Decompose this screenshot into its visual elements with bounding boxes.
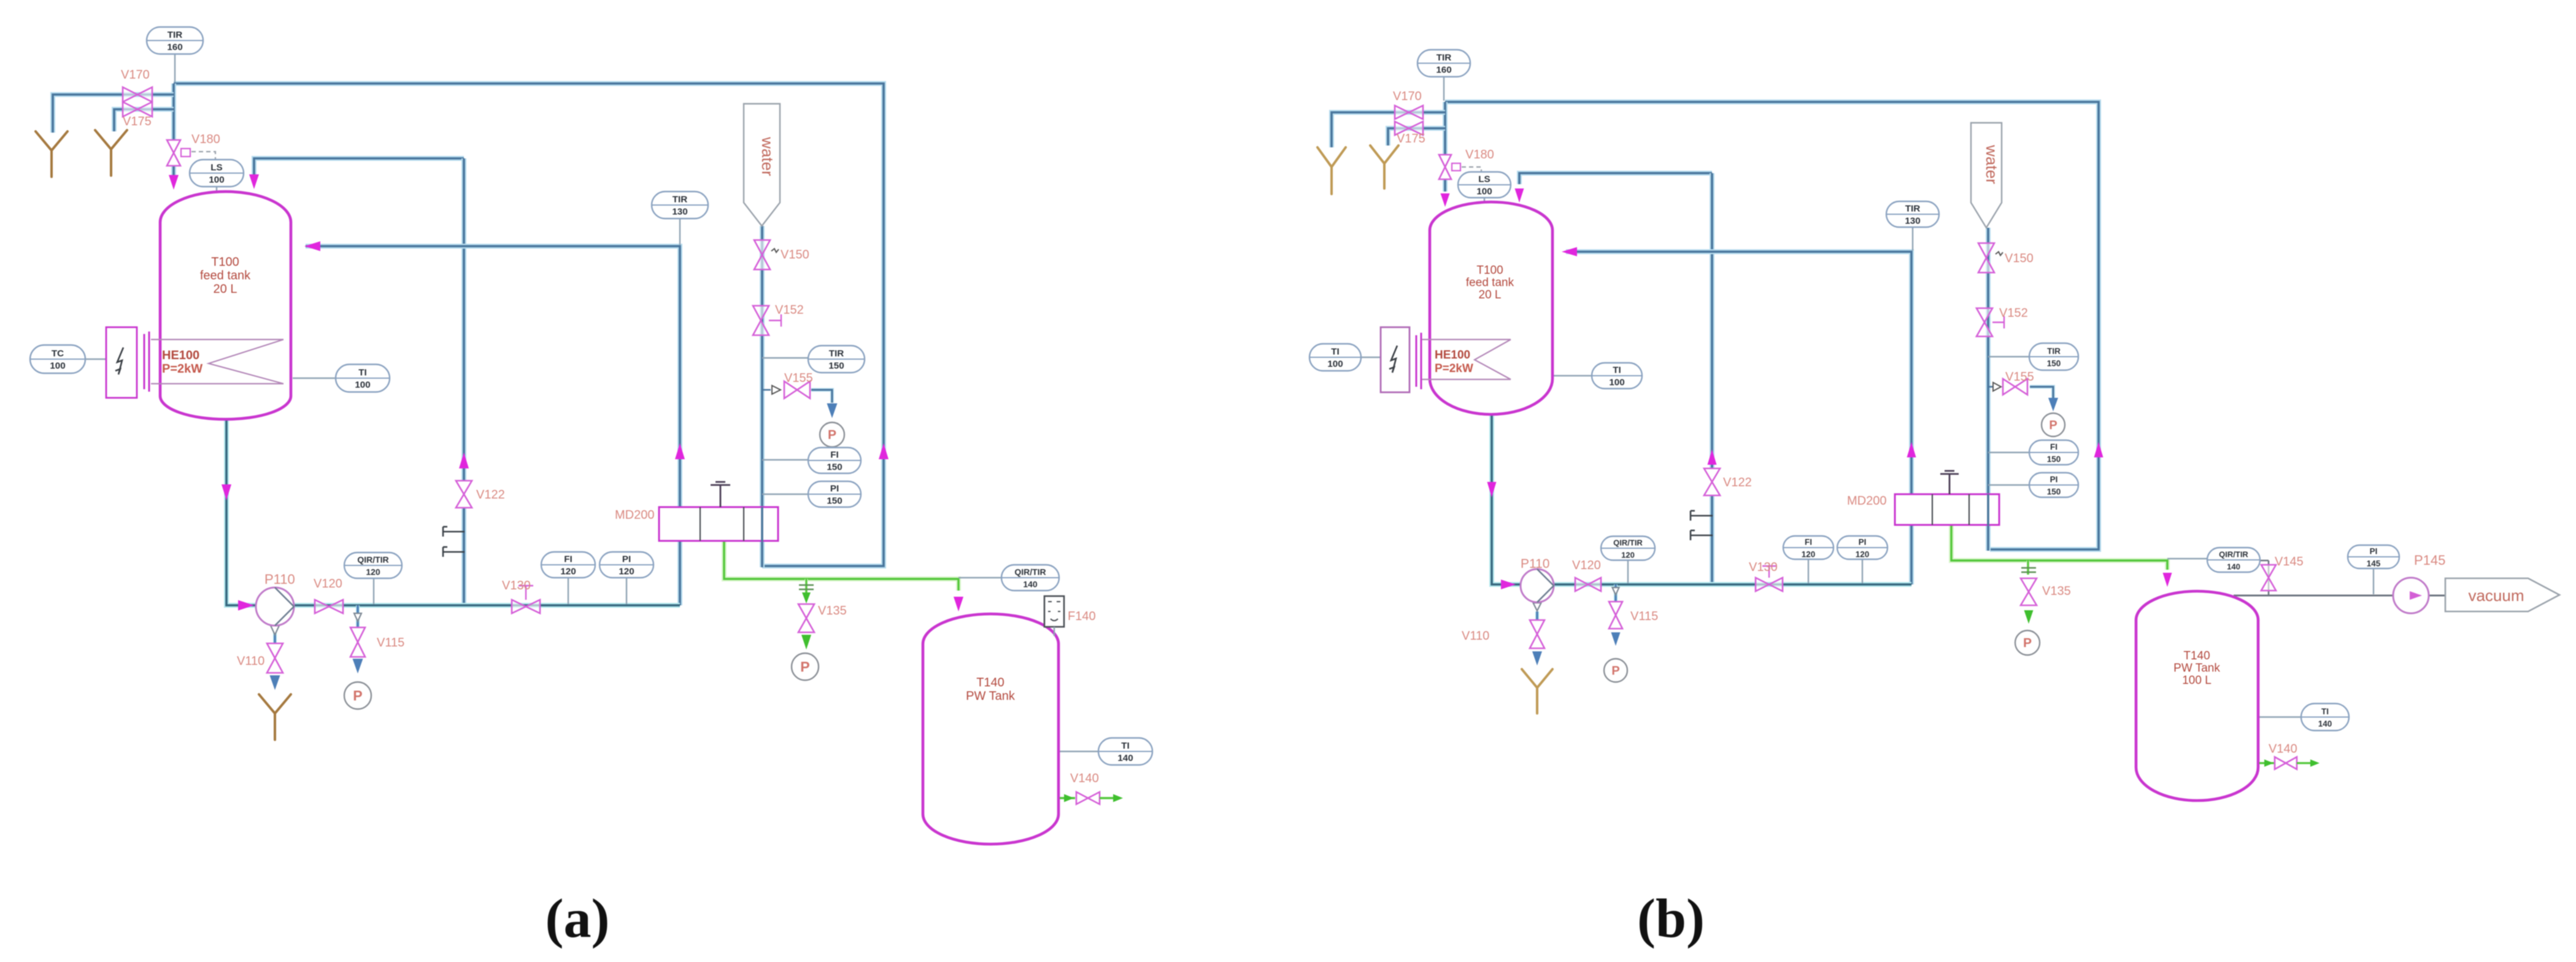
flow arrow out of V110 (panel a) [270, 675, 280, 690]
flow arrow out of V115 (panel b) [1611, 632, 1621, 646]
flow arrow out of V135 (panel a) [801, 635, 811, 650]
wire: panel-a recirculation riser below valve V122 [461, 508, 466, 607]
svg-text:TI: TI [1121, 741, 1130, 751]
vessel T100 feed tank (panel b) [1430, 202, 1552, 414]
instrument TI100 (panel a) [336, 365, 390, 392]
heater HE100 isolation bars (panel a) [144, 332, 149, 392]
svg-text:V180: V180 [191, 133, 220, 146]
svg-text:P: P [800, 659, 809, 675]
svg-text:140: 140 [2318, 720, 2332, 729]
valve V120 (panel b) [1575, 578, 1601, 591]
pump P145 vacuum pump (panel b) [2393, 578, 2429, 613]
svg-text:TIR: TIR [829, 349, 844, 359]
wire: panel-a V155 sample branch [762, 389, 771, 390]
flow arrow into T100 top right (panel b) [1515, 188, 1524, 203]
svg-text:PW Tank: PW Tank [2173, 662, 2220, 675]
instrument PI145 (panel b) [2348, 545, 2399, 568]
wire: TI140-a stem [1058, 751, 1099, 752]
valve V152 (panel a) [753, 306, 769, 335]
svg-text:FI: FI [564, 554, 573, 565]
pump nozzle below P110 (panel b) [1533, 603, 1541, 611]
instrument TC100 (panel b) [1309, 344, 1361, 371]
valve V175 (panel a) [123, 102, 152, 117]
valve V170 (panel a) [123, 87, 152, 102]
wire: FI150-b stem [1988, 452, 2031, 453]
flow arrow out of V110 (panel b) [1532, 651, 1542, 665]
heater HE100 box (panel a) [106, 327, 137, 398]
svg-text:TIR: TIR [673, 195, 687, 205]
flow arrow out of V135 (panel b) [2024, 610, 2034, 624]
sample cap upper near V122 (panel b) [1691, 511, 1713, 521]
svg-text:QIR/TIR: QIR/TIR [1613, 538, 1643, 548]
svg-text:feed tank: feed tank [1466, 276, 1514, 289]
wire: panel-a distillate return line into T100 right side [306, 246, 680, 605]
svg-text:V175: V175 [1397, 132, 1425, 145]
vent Y left of V170 (panel a) [36, 131, 67, 177]
instrument TIR160 (panel a) [147, 27, 203, 54]
wire: water line through MD200 right cell (panel b) [1988, 494, 1989, 526]
filter F140 (panel a) [1044, 596, 1064, 636]
svg-text:QIR/TIR: QIR/TIR [1014, 567, 1046, 577]
svg-text:PI: PI [622, 554, 631, 565]
inlet: water funnel (panel a) [744, 104, 780, 226]
pressure point P below V135 (panel b) [2015, 630, 2040, 655]
flow arrow into T100 top left (panel a) [169, 175, 179, 190]
svg-text:P: P [353, 688, 362, 704]
instrument TIR150 (panel a) [808, 346, 865, 373]
wire: panel-b V115 drain branch [1614, 584, 1618, 602]
svg-text:LS: LS [1478, 174, 1490, 185]
svg-text:QIR/TIR: QIR/TIR [357, 555, 388, 565]
wire: V180-b control dashed link [1462, 167, 1481, 173]
wire: panel-b segment from V180 to T100 inlet [1443, 179, 1448, 192]
instrument FI150 (panel b) [2029, 440, 2078, 465]
wire: QIR/TIR120-b stem [1627, 560, 1629, 583]
valve V175 (panel b) [1395, 122, 1423, 135]
wire: panel-a V115 drain branch [356, 605, 360, 627]
valve V122 (panel a) [456, 481, 472, 508]
outlet: vacuum symbol (panel b) [2445, 578, 2559, 611]
flow arrow on permeate line into T140 (panel a) [954, 597, 963, 611]
instrument QIR/TIR140 (panel a) [1001, 565, 1059, 591]
svg-text:TIR: TIR [1436, 53, 1451, 63]
svg-text:V110: V110 [1462, 629, 1489, 643]
valve V152 (panel b) [1976, 308, 1992, 336]
svg-text:TI: TI [358, 368, 367, 378]
instrument PI120 (panel b) [1837, 536, 1888, 559]
wire: panel-a V135 drain stem [805, 579, 808, 593]
pressure point P below V155 (panel a) [820, 422, 844, 447]
pressure point P below V155 (panel b) [2042, 413, 2065, 436]
svg-text:150: 150 [2047, 359, 2061, 368]
wire: QIR/TIR140-a stem [958, 577, 1003, 578]
wire: TIR130-b stem [1912, 228, 1913, 250]
svg-text:P: P [828, 428, 836, 442]
svg-text:100: 100 [50, 361, 65, 371]
svg-text:V152: V152 [775, 303, 804, 317]
svg-text:100: 100 [1476, 187, 1492, 197]
flow arrow at V155 outlet (panel a) [827, 403, 838, 418]
flow arrow into pump P110 (panel b) [1501, 580, 1516, 589]
flow arrow on MD200 return riser (panel b) [2094, 442, 2104, 457]
svg-text:TIR: TIR [1905, 204, 1920, 214]
wire: panel-a top steam pipe from V170 junction to right riser and MD200 return [174, 83, 884, 566]
svg-text:130: 130 [1905, 216, 1920, 227]
instrument TIR160 (panel b) [1417, 50, 1470, 77]
svg-text:V145: V145 [2275, 555, 2304, 568]
heater HE100 box (panel b) [1381, 327, 1409, 392]
valve V130 (panel b) [1756, 578, 1783, 591]
vent Y left of V175 (panel b) [1370, 145, 1398, 188]
wire: panel-a suction line from T100 bottom to pump P110 and main header [226, 419, 680, 605]
svg-text:100: 100 [209, 175, 224, 185]
wire: panel-b water line segment below MD200 [1986, 525, 1991, 551]
wire: panel-b top steam pipe to right riser and MD200 return [1445, 102, 2099, 549]
svg-text:160: 160 [167, 42, 182, 53]
instrument TIR130 (panel b) [1886, 201, 1939, 227]
wire: panel-b junction vertical to V180 [1443, 102, 1448, 155]
svg-text:P: P [1611, 664, 1619, 678]
wire: panel-b V155 sample branch [1988, 386, 1994, 387]
wire: panel-a V155 outlet to pressure point [811, 390, 832, 403]
wire: PI150-a stem [762, 494, 809, 495]
valve V140 (panel a) [1060, 792, 1123, 804]
svg-text:P=2kW: P=2kW [162, 362, 202, 376]
svg-text:V180: V180 [1465, 148, 1494, 161]
instrument TI140 (panel a) [1098, 738, 1152, 765]
wire: panel-b V135 drain stem [2027, 561, 2030, 575]
wire: panel-b V110 drain branch [1535, 611, 1539, 620]
svg-text:LS: LS [210, 163, 222, 173]
wire: TIR160-a stem [174, 54, 175, 82]
vent Y left of V170 (panel b) [1317, 147, 1346, 194]
svg-text:P=2kW: P=2kW [1435, 362, 1473, 375]
pressure point P below V135 (panel a) [792, 653, 819, 680]
flow arrow on recirculation riser (panel b) [1708, 449, 1717, 465]
svg-text:V155: V155 [2005, 370, 2034, 384]
svg-text:V140: V140 [2269, 742, 2297, 756]
svg-text:P145: P145 [2414, 553, 2445, 568]
instrument PI150 (panel a) [808, 481, 861, 507]
instrument TIR130 (panel a) [652, 192, 708, 219]
valve V155 (panel a) [784, 381, 810, 398]
valve V140 (panel b) [2259, 757, 2320, 769]
svg-text:water: water [758, 136, 777, 176]
valve V155 (panel b) [2003, 379, 2027, 395]
svg-text:20 L: 20 L [1479, 289, 1502, 301]
wire: TC100-a stem [85, 359, 106, 360]
wire: panel-a junction vertical from top pipe to valve V180 [171, 83, 176, 140]
wire: panel-b permeate line from MD200 to T140 [1951, 525, 2167, 570]
flow arrow into T100 right side (panel a) [304, 241, 320, 251]
flow arrow on T100 drop line (panel a) [222, 484, 231, 500]
instrument FI120 (panel b) [1783, 536, 1834, 559]
valve V110 (panel b) [1530, 620, 1544, 648]
svg-text:PI: PI [2370, 547, 2378, 556]
svg-text:V140: V140 [1070, 772, 1099, 785]
wire: PI120-a stem [626, 577, 627, 604]
wire: TI100-a stem [293, 378, 336, 379]
svg-text:100: 100 [355, 380, 370, 390]
svg-text:MD200: MD200 [1847, 494, 1886, 508]
wire: PI120-b stem [1862, 559, 1863, 583]
instrument FI150 (panel a) [808, 448, 861, 473]
svg-text:T140: T140 [976, 676, 1005, 689]
vessel T140 PW tank (panel b) [2136, 591, 2258, 801]
heater HE100 lightning bolt (panel a) [115, 347, 123, 374]
svg-text:F140: F140 [1068, 610, 1096, 623]
flow arrow on permeate line into T140 (panel b) [2163, 573, 2172, 587]
svg-text:140: 140 [1023, 580, 1038, 589]
wire: FI150-a stem [762, 459, 809, 460]
wire: panel-a V110 drain branch [273, 626, 277, 643]
svg-text:140: 140 [2227, 562, 2240, 572]
svg-text:V120: V120 [314, 577, 342, 591]
wire: TIR150-a stem [762, 357, 809, 359]
svg-text:150: 150 [827, 496, 842, 506]
svg-text:(b): (b) [1637, 888, 1705, 949]
nozzle above V115 (panel b) [1613, 588, 1619, 595]
wire: panel-a water feed drop line through V150/V152 to MD200 [760, 226, 765, 507]
wire: QIR/TIR120-a stem [373, 571, 374, 604]
wire: panel-a recirculation riser above valve V122 [461, 158, 466, 480]
svg-text:120: 120 [1856, 550, 1870, 559]
instrument PI120 (panel a) [600, 552, 654, 578]
wire: panel-b V155 outlet to pressure point [2030, 387, 2053, 398]
svg-text:P: P [2023, 636, 2032, 650]
module MD200 (panel a) [659, 507, 778, 541]
svg-text:QIR/TIR: QIR/TIR [2219, 550, 2248, 559]
valve V145 (panel b) [2261, 565, 2276, 591]
wire: panel-a water line segment below MD200 [760, 541, 765, 567]
inlet: water funnel (panel b) [1971, 123, 2002, 228]
instrument QIR/TIR140 (panel b) [2207, 548, 2260, 572]
svg-text:V150: V150 [2005, 252, 2034, 265]
module MD200 stirrer handle (panel b) [1940, 471, 1959, 494]
svg-text:V150: V150 [781, 248, 809, 262]
wire: panel-a vent line through V170 to left vent [53, 95, 174, 133]
instrument QIR/TIR120 (panel a) [344, 553, 402, 578]
wire: panel-a segment from V180 to T100 inlet [171, 166, 176, 179]
wire: QIR/TIR140-b stem [2167, 558, 2209, 559]
valve V150 (panel a) [754, 240, 770, 270]
valve V180 (panel a) [167, 140, 180, 166]
svg-text:HE100: HE100 [162, 349, 199, 362]
wire: water line through MD200 right cell [762, 507, 763, 541]
sample cap lower near V122 (panel b) [1691, 530, 1713, 540]
vessel T100 feed tank (panel a) [160, 192, 291, 419]
svg-text:140: 140 [1117, 753, 1133, 764]
wire: PI150-b stem [1988, 484, 2031, 486]
svg-text:120: 120 [619, 567, 634, 577]
svg-text:PW Tank: PW Tank [966, 689, 1016, 703]
svg-text:V122: V122 [476, 488, 505, 502]
instrument FI120 (panel a) [541, 552, 595, 578]
valve V130 (panel a) [512, 600, 540, 613]
wire: panel-b V145 connection [2258, 560, 2269, 562]
sample cap lower near V122 (panel a) [443, 547, 465, 557]
wire: TI140-b stem [2259, 716, 2303, 718]
svg-text:P110: P110 [264, 572, 295, 587]
wire: panel-b recirculation riser above V122 [1710, 173, 1714, 468]
valve V135 (panel a) [798, 604, 814, 632]
module MD200 stirrer handle (panel a) [711, 482, 730, 507]
valve V150 (panel b) [1978, 243, 1994, 273]
svg-text:T100: T100 [1476, 264, 1503, 277]
flow arrow at V155 outlet (panel b) [2048, 398, 2058, 411]
svg-text:150: 150 [828, 361, 844, 371]
valve V115 (panel b) [1609, 602, 1622, 629]
flow arrow on T100 drop line (panel b) [1487, 482, 1497, 497]
svg-text:water: water [1983, 144, 2001, 184]
wire: FI120-b stem [1808, 559, 1809, 583]
wire: panel-a permeate line from MD200 to T140 [724, 541, 958, 591]
svg-text:FI: FI [1805, 538, 1812, 547]
wire: TC100-b stem [1361, 357, 1381, 358]
instrument LS100 (panel b) [1458, 172, 1511, 198]
svg-text:TI: TI [1613, 365, 1621, 376]
flow arrow on MD200 return riser (panel a) [879, 443, 889, 459]
flow arrow on distillate riser (panel a) [675, 443, 685, 459]
vent Y left of V175 (panel a) [95, 130, 127, 176]
svg-text:V170: V170 [1393, 90, 1422, 103]
vent Y below V110 (panel b) [1522, 669, 1552, 713]
svg-text:120: 120 [1621, 551, 1635, 560]
wire: LS100-a stem [216, 187, 217, 194]
wire: panel-b recirculation riser below V122 [1710, 496, 1714, 586]
wire: panel-a vent line through V175 to second vent [114, 109, 174, 131]
heater HE100 lightning bolt (panel b) [1389, 346, 1397, 373]
flow arrow into V135 (panel a) [802, 592, 811, 603]
wire: V180-a control dashed link [191, 152, 215, 161]
svg-text:145: 145 [2367, 559, 2381, 568]
svg-text:HE100: HE100 [1435, 349, 1470, 362]
svg-text:100: 100 [1609, 378, 1624, 388]
svg-text:vacuum: vacuum [2468, 586, 2524, 605]
svg-text:TIR: TIR [2047, 347, 2061, 356]
svg-text:V130: V130 [502, 579, 531, 592]
wire: panel-b vent line through V175 [1388, 128, 1445, 145]
svg-text:120: 120 [560, 567, 576, 577]
svg-text:20 L: 20 L [214, 282, 237, 296]
valve V110 (panel a) [267, 643, 283, 673]
flow arrow into pump P110 (panel a) [238, 600, 254, 611]
svg-text:P110: P110 [1521, 557, 1550, 571]
svg-text:TC: TC [52, 349, 64, 359]
svg-text:PI: PI [830, 484, 839, 494]
vent Y below V110 (panel a) [259, 694, 291, 740]
wire: panel-a recirculation return into T100 top [254, 158, 464, 181]
flow arrow on distillate riser (panel b) [1907, 442, 1916, 457]
svg-text:160: 160 [1436, 65, 1451, 76]
instrument PI150 (panel b) [2029, 473, 2078, 497]
svg-text:V120: V120 [1572, 559, 1601, 572]
flow arrow out of V115 (panel a) [353, 659, 363, 673]
svg-text:V135: V135 [818, 604, 847, 618]
instrument TI140 (panel b) [2301, 704, 2349, 731]
flow arrow into T100 top left (panel b) [1441, 193, 1450, 207]
svg-text:V152: V152 [1999, 306, 2028, 320]
svg-text:FI: FI [2050, 443, 2057, 452]
svg-text:T140: T140 [2183, 650, 2210, 662]
wire: panel-b vent line through V170 [1332, 112, 1445, 147]
valve V115 (panel a) [350, 627, 365, 657]
heater element coil inside T100 (panel a) [151, 339, 283, 384]
heater element coil inside T100 (panel b) [1422, 339, 1511, 379]
instrument TI100 (panel b) [1592, 363, 1642, 389]
svg-text:V130: V130 [1749, 561, 1778, 574]
pressure point P below V115 (panel a) [344, 682, 371, 709]
svg-text:feed tank: feed tank [200, 269, 251, 282]
wire: TIR130-a stem [679, 217, 681, 245]
instrument QIR/TIR120 (panel b) [1601, 537, 1655, 561]
svg-text:TI: TI [1331, 347, 1340, 357]
sample cap upper near V122 (panel a) [443, 527, 465, 537]
svg-text:V135: V135 [2042, 584, 2071, 598]
wire: FI120-a stem [568, 577, 569, 604]
svg-text:150: 150 [2047, 487, 2061, 497]
wire: panel-b vacuum line from T140 to vacuum pump [2234, 595, 2445, 597]
svg-text:V170: V170 [121, 68, 150, 82]
svg-text:120: 120 [366, 567, 380, 577]
svg-text:TI: TI [2321, 707, 2329, 716]
vessel T140 PW tank (panel a) [923, 614, 1059, 844]
svg-text:150: 150 [2047, 455, 2061, 464]
svg-text:130: 130 [672, 207, 687, 217]
wire: LS100-b stem [1484, 198, 1485, 208]
svg-text:FI: FI [830, 450, 839, 460]
instrument TC100 (panel a) [30, 345, 85, 373]
svg-text:V115: V115 [1630, 610, 1658, 623]
valve V120 (panel a) [315, 600, 343, 613]
flow arrow into T100 right side (panel b) [1562, 247, 1577, 257]
svg-text:MD200: MD200 [615, 508, 654, 522]
wire: panel-b distillate return into T100 right side [1566, 252, 1911, 584]
module MD200 (panel b) [1895, 494, 1999, 525]
pressure point P below V115 (panel b) [1604, 659, 1627, 682]
svg-text:PI: PI [1859, 538, 1867, 547]
wire: panel-b recirculation return into T100 top [1519, 173, 1712, 184]
svg-text:V155: V155 [784, 371, 813, 385]
wire: PI145-b stem [2373, 568, 2374, 594]
svg-text:100 L: 100 L [2182, 674, 2212, 687]
wire: TIR160-b stem [1443, 77, 1444, 101]
svg-text:120: 120 [1802, 550, 1816, 559]
valve V122 (panel b) [1704, 468, 1720, 495]
svg-text:V175: V175 [123, 115, 152, 128]
heater HE100 isolation bars (panel b) [1416, 333, 1421, 389]
svg-text:100: 100 [1327, 359, 1343, 370]
flow arrow into T100 top right (panel a) [249, 174, 259, 189]
svg-text:V122: V122 [1723, 476, 1752, 489]
svg-text:V110: V110 [237, 654, 264, 668]
flow arrow on recirculation riser (panel a) [459, 452, 469, 468]
pump nozzle below P110 (panel a) [271, 626, 279, 635]
instrument LS100 (panel a) [190, 160, 244, 187]
svg-text:(a): (a) [546, 888, 610, 949]
valve V180 (panel b) [1439, 155, 1451, 179]
wire: panel-b suction line from T100 to pump P110 and main header [1492, 414, 1911, 584]
wire: panel-b water feed drop line [1986, 228, 1991, 494]
svg-text:150: 150 [827, 462, 842, 473]
svg-text:TIR: TIR [168, 30, 182, 41]
instrument TIR150 (panel b) [2029, 343, 2078, 370]
wire: TIR150-b stem [1988, 356, 2031, 357]
valve V135 (panel b) [2021, 578, 2037, 605]
svg-text:P: P [2049, 419, 2057, 432]
svg-text:PI: PI [2050, 475, 2058, 484]
pump P110 (panel b) [1521, 569, 1554, 602]
